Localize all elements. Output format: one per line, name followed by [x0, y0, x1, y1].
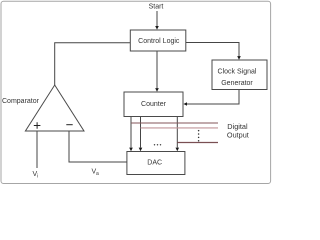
svg-text:Generator: Generator: [221, 80, 253, 87]
svg-text:Start: Start: [149, 4, 164, 11]
svg-text:i: i: [37, 174, 38, 180]
svg-text:Control Logic: Control Logic: [138, 38, 180, 45]
svg-text:Output: Output: [227, 131, 249, 140]
svg-text:a: a: [96, 171, 99, 177]
svg-text:Comparator: Comparator: [2, 98, 40, 105]
svg-text:Counter: Counter: [141, 101, 167, 108]
svg-text:DAC: DAC: [147, 160, 162, 167]
svg-text:Clock Signal: Clock Signal: [218, 69, 257, 76]
